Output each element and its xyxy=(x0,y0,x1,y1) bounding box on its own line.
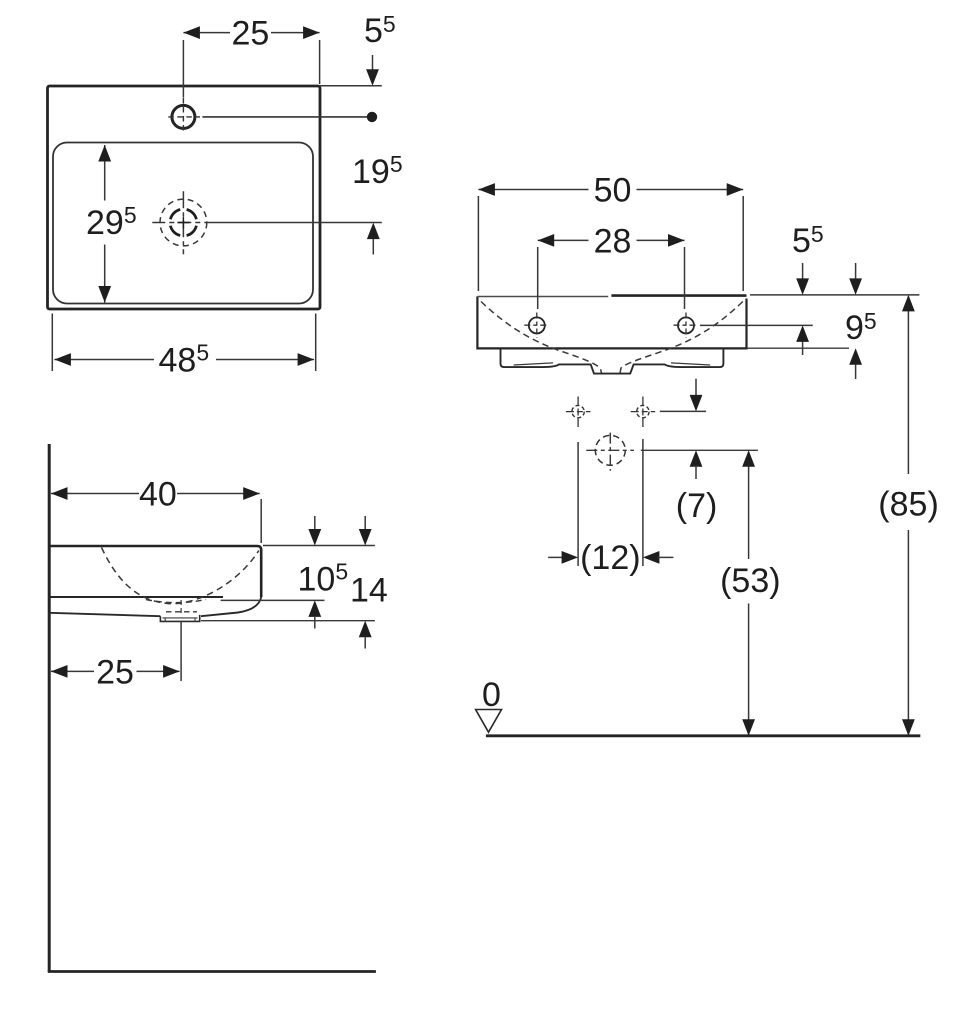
svg-text:55: 55 xyxy=(364,11,396,50)
dashed outlet top xyxy=(166,611,197,613)
svg-text:195: 195 xyxy=(352,151,403,191)
datum triangle xyxy=(476,710,502,733)
dim 40 line xyxy=(51,493,260,495)
front view: top edge thin left part xyxy=(477,296,608,298)
apron recess line right xyxy=(671,363,710,365)
drain outer dashed circle xyxy=(160,199,207,246)
drain centerline dashed xyxy=(180,600,182,615)
14 arrows xyxy=(364,516,366,530)
dim (85) line xyxy=(907,296,909,734)
dashed bowl curve side xyxy=(102,548,259,604)
fixing hole right xyxy=(637,405,649,417)
apron outline xyxy=(501,348,724,373)
svg-text:95: 95 xyxy=(845,308,877,347)
dim 48/5 extension lines xyxy=(52,314,315,372)
side view front lower curve xyxy=(201,597,261,616)
terminator dot xyxy=(367,112,377,122)
apron recess line left xyxy=(514,363,553,365)
svg-text:50: 50 xyxy=(594,172,632,210)
tap hole right xyxy=(678,317,694,333)
dim 50 extension lines xyxy=(478,196,743,291)
plan view: basin outer rim xyxy=(48,86,321,309)
dim 25 side line xyxy=(51,670,180,672)
floor line right xyxy=(486,734,920,737)
side view underside front line xyxy=(49,613,160,616)
svg-text:(12): (12) xyxy=(580,539,640,577)
dim 40 extension line xyxy=(260,499,262,543)
front view: body sides and bottom xyxy=(477,297,746,349)
dim 28 line xyxy=(538,239,685,241)
floor line left xyxy=(48,970,376,973)
top reference line right xyxy=(750,294,919,296)
svg-text:295: 295 xyxy=(86,202,137,242)
svg-text:40: 40 xyxy=(139,476,177,514)
leader from rim top right corner xyxy=(320,85,382,87)
drain inner circle arcs xyxy=(170,210,196,236)
drain vertical centerline xyxy=(182,191,184,254)
dashed bowl bottom arc xyxy=(146,600,206,603)
fixing level leader xyxy=(660,410,706,412)
plan view: basin inner bowl edge xyxy=(53,143,313,304)
tap hole left xyxy=(529,317,545,333)
7 arrows xyxy=(695,379,697,396)
fixing hole left xyxy=(572,405,584,417)
svg-text:(7): (7) xyxy=(676,487,718,525)
shelf reference line right xyxy=(747,347,849,349)
svg-text:485: 485 xyxy=(159,340,210,380)
faucet leader line to dot xyxy=(202,116,367,118)
dim 29/5 vertical line xyxy=(104,145,106,303)
dim 48/5 line xyxy=(54,359,314,361)
drain centerlines xyxy=(609,433,611,471)
dim (53) line xyxy=(748,452,750,735)
dim 29/5 arrows xyxy=(98,145,111,162)
dim 25 extension lines xyxy=(183,40,319,98)
dim 48/5 arrows xyxy=(54,353,71,366)
tap level leader to right xyxy=(700,324,813,326)
dim 25 arrows xyxy=(183,26,200,39)
drain extension line down xyxy=(180,621,182,681)
front view: top edge thick right part xyxy=(611,294,746,297)
faucet hole crosshair xyxy=(168,98,200,133)
dashed bowl curve right branch xyxy=(620,302,743,374)
14 reference line xyxy=(201,620,375,622)
arrow 19/5 up to drain line xyxy=(367,223,380,240)
wall line xyxy=(48,444,51,972)
10/5 reference line xyxy=(221,599,325,601)
10/5 arrows xyxy=(314,516,316,530)
dim 28 extension lines xyxy=(538,247,685,309)
faucet hole circle xyxy=(172,105,195,128)
svg-text:55: 55 xyxy=(792,221,824,260)
5/5 arrows xyxy=(802,263,804,279)
dim 50 line xyxy=(478,189,743,191)
side view underside back line xyxy=(49,596,223,598)
svg-text:28: 28 xyxy=(594,223,632,261)
waste flange xyxy=(160,615,199,622)
svg-text:25: 25 xyxy=(96,653,134,691)
drain center tick xyxy=(177,217,189,229)
svg-text:(53): (53) xyxy=(720,562,780,600)
side view rim top and front edge xyxy=(49,546,261,597)
svg-text:(85): (85) xyxy=(878,486,938,524)
drain level leader xyxy=(641,449,758,451)
svg-text:0: 0 xyxy=(482,676,501,714)
dim (12) extension lines xyxy=(578,439,643,566)
dim 25 line xyxy=(183,32,319,34)
arrow 5/5 down to rim top xyxy=(372,55,374,70)
drain horizontal centerline and leader xyxy=(152,222,213,224)
svg-text:25: 25 xyxy=(232,15,270,53)
svg-text:105: 105 xyxy=(298,559,349,599)
dashed bowl curve left branch xyxy=(481,302,602,374)
drain dashed circle xyxy=(595,435,625,465)
dim (12) outside arrows xyxy=(548,556,563,558)
svg-text:14: 14 xyxy=(350,571,388,609)
9/5 arrows xyxy=(855,263,857,279)
rim top reference line xyxy=(263,545,375,547)
